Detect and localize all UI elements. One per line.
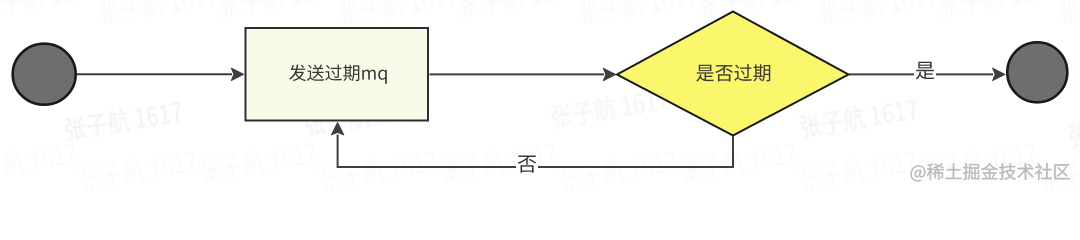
watermark tile row3-9 "张子航 1617" (faint, bottom) [1039,149,1080,191]
edge label 否 [518,156,537,173]
diamond label 是否过期 [696,64,770,82]
arrowhead into end circle [993,68,1005,80]
watermark tile row1-0 "张子航 1617" (faint, cut at top) [0,0,98,18]
process rect [246,28,429,121]
watermark tile row1-4 "张子航 1617" (faint, cut at top) [459,0,579,18]
watermark tile row2-3 "张子航 1617" [799,97,919,139]
watermark tile row1-7 "张子航 1617" (faint, cut at top) [819,0,939,25]
watermark tile row1-5 "张子航 1617" (faint, cut at top) [579,0,699,25]
watermark tile row2-1 "张子航 1617" [304,95,424,137]
watermark tile row3-8 "张子航 1617" (faint, bottom) [919,141,1039,183]
watermark tile row3-6 "张子航 1617" (faint, bottom) [679,141,799,183]
watermark tile row1-9 "张子航 1617" (faint, cut at top) [1059,0,1080,25]
watermark tile row2-2 "张子航 1617" [550,87,670,129]
end circle [1007,42,1067,102]
arrowhead into rect left [231,68,243,80]
watermark tile row1-2 "张子航 1617" (faint, cut at top) [219,0,339,18]
rect label 发送过期mq [289,64,387,83]
watermark tile row1-1 "张子航 1617" (faint, cut at top) [99,0,219,25]
start circle [13,44,76,105]
watermark tile row3-5 "张子航 1617" (faint, bottom) [559,149,679,191]
watermark tile row2-0 "张子航 1617" [64,99,184,141]
wire start-circle to rect [77,73,232,75]
label 是 white background [914,60,936,82]
watermark tile row3-7 "张子航 1617" (faint, bottom) [799,149,919,191]
wire rect to diamond [430,73,605,75]
watermark tile row2-4 "张子航 1617" [1068,106,1080,148]
decision diamond [617,12,849,136]
watermark tile row3-3 "张子航 1617" (faint, bottom) [319,149,439,191]
arrowhead into diamond left vertex [603,68,615,80]
watermark tile row3-2 "张子航 1617" (faint, bottom) [199,141,319,183]
wire diamond to end-circle [849,73,993,75]
edge label 是 [916,62,935,80]
watermark tile row3-0 "张子航 1617" (faint, bottom) [0,141,78,183]
watermark tile row1-8 "张子航 1617" (faint, cut at top) [939,0,1059,18]
wire feedback loop diamond bottom to rect bottom [338,135,733,168]
watermark tile row3-1 "张子航 1617" (faint, bottom) [79,149,199,191]
label 否 white background [516,153,538,175]
watermark bottom-right "@稀土掘金技术社区" [911,163,1070,181]
arrowhead up into rect bottom [331,123,343,135]
watermark tile row3-4 "张子航 1617" (faint, bottom) [439,141,559,183]
watermark tile row1-3 "张子航 1617" (faint, cut at top) [339,0,459,25]
watermark tile row1-6 "张子航 1617" (faint, cut at top) [699,0,819,18]
